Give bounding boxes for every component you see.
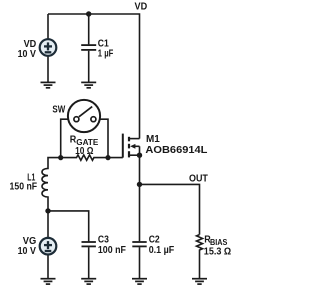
svg-text:SW: SW: [52, 105, 65, 116]
svg-text:C3: C3: [98, 235, 109, 246]
svg-text:0.1 µF: 0.1 µF: [149, 245, 175, 256]
svg-text:15.3 Ω: 15.3 Ω: [204, 247, 231, 258]
svg-text:10 V: 10 V: [18, 246, 37, 257]
svg-text:10 V: 10 V: [18, 49, 37, 60]
svg-text:150 nF: 150 nF: [10, 182, 38, 193]
svg-text:10 Ω: 10 Ω: [75, 146, 93, 157]
svg-text:100 nF: 100 nF: [98, 245, 126, 256]
svg-text:1 µF: 1 µF: [98, 48, 114, 59]
svg-text:C2: C2: [149, 235, 160, 246]
svg-text:AOB66914L: AOB66914L: [145, 145, 207, 156]
svg-text:VD: VD: [135, 1, 148, 12]
svg-text:OUT: OUT: [189, 174, 208, 185]
svg-text:M1: M1: [146, 134, 160, 145]
